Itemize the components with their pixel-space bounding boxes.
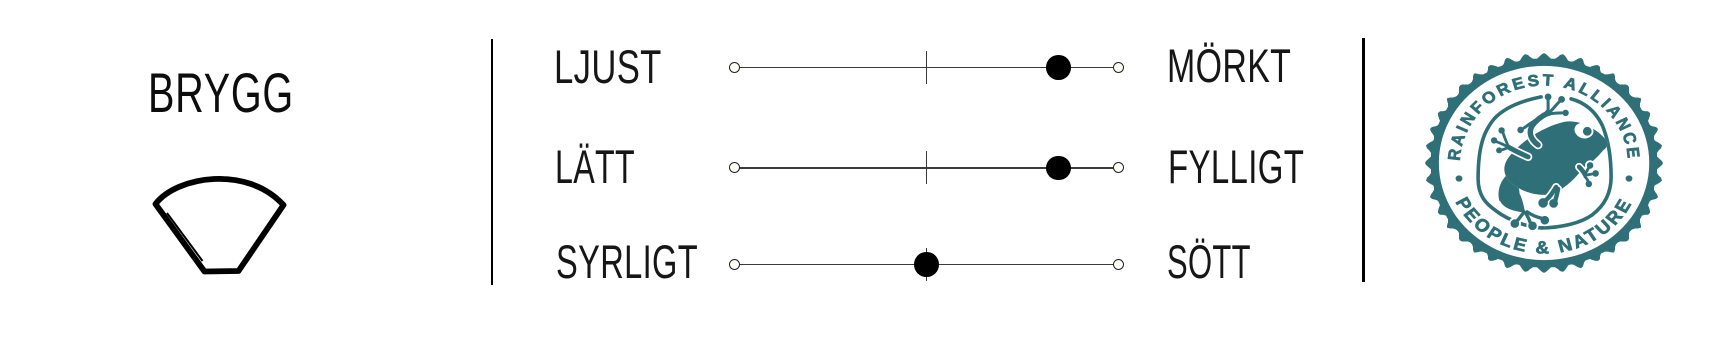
BRYGG title [148, 66, 294, 122]
frog ring [1478, 97, 1611, 228]
frog right arm [1579, 160, 1601, 189]
frog hind leg [1498, 175, 1550, 232]
slider dot 1 [1046, 55, 1071, 80]
slider right end circle 2 [1113, 162, 1124, 173]
frog bottom foot [1536, 187, 1559, 210]
frog left arm [1489, 125, 1528, 157]
brew filter icon [145, 170, 295, 282]
label SYRLIGT [556, 239, 698, 287]
slider mid tick 2 [926, 151, 928, 184]
slider line 3 [735, 264, 1119, 266]
slider line 1 [735, 67, 1119, 69]
Rainforest Alliance seal [1414, 43, 1674, 283]
slider left end circle 3 [729, 259, 740, 270]
frog body [1504, 121, 1607, 195]
label MÖRKT [1167, 43, 1291, 91]
seal scalloped border [1425, 53, 1663, 273]
slider dot 2 [1046, 156, 1071, 181]
right divider [1362, 38, 1364, 282]
slider left end circle 1 [729, 62, 740, 73]
slider mid tick 1 [926, 51, 928, 84]
seal right bullet [1625, 175, 1632, 181]
slider right end circle 1 [1113, 62, 1124, 73]
label SÖTT [1167, 239, 1251, 287]
slider line 2 [735, 167, 1119, 169]
label FYLLIGT [1168, 144, 1304, 192]
slider mid tick 3 [926, 248, 928, 281]
left divider [491, 39, 493, 285]
slider left end circle 2 [729, 162, 740, 173]
seal left bullet [1455, 175, 1462, 181]
frog raised arm [1515, 92, 1570, 145]
slider right end circle 3 [1113, 259, 1124, 270]
label LJUST [554, 44, 662, 92]
label LÄTT [555, 144, 635, 192]
frog eye [1572, 120, 1594, 141]
slider dot 3 [914, 252, 939, 277]
